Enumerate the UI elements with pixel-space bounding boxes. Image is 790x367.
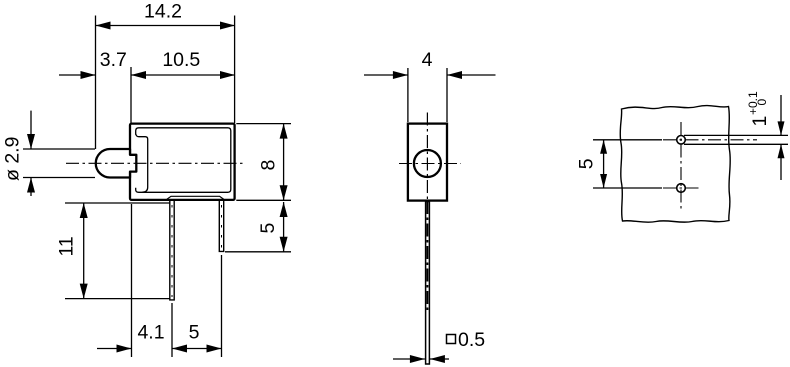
- svg-text:5: 5: [257, 223, 279, 234]
- svg-text:4: 4: [422, 49, 433, 71]
- svg-text:0.5: 0.5: [458, 329, 485, 351]
- svg-text:3.7: 3.7: [100, 49, 127, 71]
- svg-text:11: 11: [55, 236, 77, 256]
- svg-text:5: 5: [576, 158, 598, 169]
- svg-text:1: 1: [749, 116, 771, 127]
- svg-text:ø 2.9: ø 2.9: [2, 137, 24, 181]
- svg-text:14.2: 14.2: [144, 1, 182, 23]
- svg-text:8: 8: [258, 160, 280, 171]
- svg-text:5: 5: [189, 322, 200, 344]
- svg-text:0: 0: [755, 99, 769, 106]
- svg-text:10.5: 10.5: [162, 49, 200, 71]
- svg-text:4.1: 4.1: [137, 322, 164, 344]
